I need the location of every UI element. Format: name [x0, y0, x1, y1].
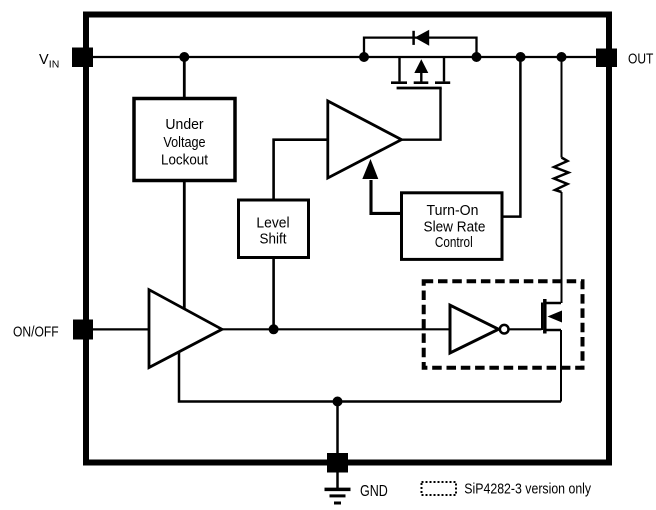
node ground rail junction [333, 397, 343, 407]
svg-text:Control: Control [435, 235, 473, 251]
wire ON/OFF pin to buffer [93, 328, 149, 330]
wire amp output to pass FET gate [402, 88, 441, 140]
wire resistor to discharge FET drain [561, 192, 563, 303]
svg-text:Voltage: Voltage [163, 135, 205, 151]
legend dashed box [422, 482, 457, 495]
svg-text:ON/OFF: ON/OFF [13, 325, 59, 341]
wire ground rail to GND pin [336, 402, 339, 456]
wire buffer to ground rail [179, 352, 561, 402]
svg-text:SiP4282-3 version only: SiP4282-3 version only [464, 482, 591, 498]
buffer U3 ON/OFF [149, 290, 222, 368]
wire discharge FET source to ground rail [560, 330, 562, 402]
svg-text:Under: Under [165, 117, 203, 133]
transistor Q1 drain stub [435, 57, 450, 83]
transistor Q1 pass PMOS gate plate [397, 87, 442, 90]
wire VIN rail (VIN pin to OUT pin) [93, 56, 596, 58]
block Level Shift [239, 200, 309, 258]
node diode cathode junction [472, 52, 482, 62]
transistor Q1 source stub [391, 57, 407, 83]
wire Level Shift bottom to ON/OFF line [272, 258, 275, 330]
svg-text:Level: Level [256, 215, 289, 231]
svg-text:Lockout: Lockout [161, 152, 208, 168]
wire VIN to UVL top [183, 57, 186, 98]
wire buffer output to inverter [222, 328, 450, 330]
node slew control junction [516, 52, 526, 62]
IC outline box [86, 15, 609, 463]
transistor Q1 body arrow [414, 59, 429, 82]
wire slew control to VIN rail [502, 57, 521, 217]
pin GND [327, 453, 348, 473]
svg-text:OUT: OUT [628, 51, 654, 67]
svg-text:Slew Rate: Slew Rate [424, 220, 486, 236]
svg-text:IN: IN [49, 59, 60, 71]
svg-text:GND: GND [360, 483, 388, 500]
svg-text:Shift: Shift [260, 232, 287, 248]
label VIN [39, 52, 59, 70]
wire UVL bottom to ON/OFF buffer [183, 180, 186, 310]
block Under Voltage Lockout [134, 99, 235, 181]
diode D1 body diode [414, 30, 430, 46]
wire Level Shift to slew amp input [274, 140, 328, 200]
ground symbol [325, 473, 351, 504]
node diode anode junction [359, 52, 369, 62]
dashed box SiP4282-3 option [424, 281, 583, 368]
pin OUT [596, 49, 617, 68]
resistor R1 [554, 158, 569, 193]
inverter U2 [450, 305, 509, 353]
op-amp slew driver [328, 101, 402, 178]
wire rail to resistor [561, 57, 563, 158]
node VIN/UVL junction [179, 52, 189, 62]
wire inverter output to discharge FET gate [509, 328, 542, 330]
transistor Q2 discharge NMOS [542, 299, 562, 334]
node resistor junction [557, 52, 567, 62]
node level shift junction [269, 324, 279, 334]
svg-text:Turn-On: Turn-On [427, 203, 479, 219]
wire slew control to amp (with arrowhead) [362, 159, 401, 213]
svg-text:V: V [39, 52, 49, 68]
pin VIN [72, 48, 93, 68]
block Turn-On Slew Rate Control [402, 193, 503, 260]
wire body diode loop [364, 38, 477, 57]
pin ON/OFF [73, 320, 93, 340]
